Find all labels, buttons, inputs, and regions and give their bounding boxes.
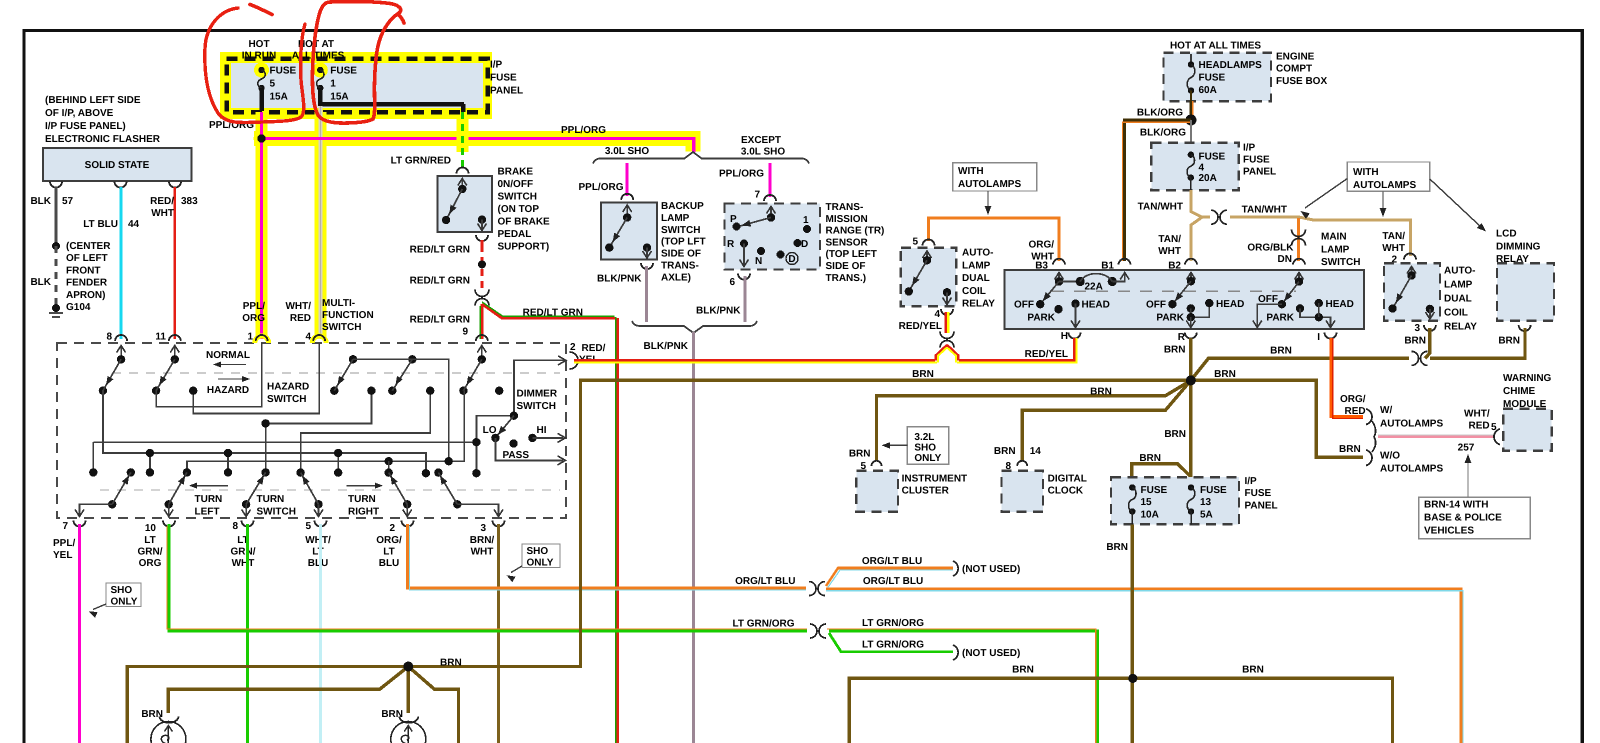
svg-text:WHT/: WHT/ [285, 301, 311, 312]
wire BLK/ORG junction to B1 [1125, 120, 1192, 261]
wire ORG autolamps to relay 5 and B3 [929, 218, 1060, 261]
svg-text:LAMP: LAMP [1321, 244, 1350, 255]
svg-text:RELAY: RELAY [962, 299, 995, 310]
warning chime module connector [1494, 429, 1500, 445]
wire RED/LT GRN green trace to pin 9 [479, 306, 481, 339]
electronic flasher SOLID STATE [43, 148, 192, 181]
svg-text:4: 4 [305, 332, 311, 343]
svg-text:MAIN: MAIN [1321, 232, 1347, 243]
svg-text:WHT: WHT [1382, 243, 1405, 254]
instrument cluster [856, 471, 898, 512]
MF pin 7 (bottom) [74, 521, 86, 527]
svg-text:BLU: BLU [308, 558, 329, 569]
svg-text:IN RUN: IN RUN [242, 51, 276, 62]
svg-text:WHT: WHT [232, 558, 255, 569]
svg-text:3.0L SHO: 3.0L SHO [741, 147, 785, 158]
svg-text:I/P: I/P [1245, 476, 1258, 487]
wire BRN fuse15 down to bottom loop [1131, 524, 1134, 743]
svg-text:BRN-14 WITH: BRN-14 WITH [1424, 500, 1488, 511]
svg-text:BRN: BRN [440, 658, 462, 669]
svg-text:OF LEFT: OF LEFT [66, 253, 108, 264]
wire ORG/LT BLU continues right and down [826, 589, 1461, 743]
svg-text:LAMP: LAMP [962, 260, 991, 271]
wire PPL/ORG to backup lamp switch [626, 163, 629, 196]
svg-text:WITH: WITH [1353, 167, 1379, 178]
svg-text:BLK/ORG: BLK/ORG [1137, 108, 1183, 119]
MF pin 3 (bottom) [493, 521, 505, 527]
svg-text:8: 8 [232, 521, 238, 532]
callout WITH AUTOLAMPS (right) [1347, 162, 1430, 191]
svg-text:LT: LT [144, 535, 155, 546]
svg-text:OFF: OFF [1146, 300, 1166, 311]
svg-text:AUTOLAMPS: AUTOLAMPS [1380, 464, 1443, 475]
MF isolated contact dot b [509, 439, 517, 447]
svg-text:RED/YEL: RED/YEL [899, 321, 942, 332]
svg-text:ONLY: ONLY [111, 597, 138, 608]
wire WHT/RED fuse1 down to MF pin 4 [318, 106, 322, 339]
svg-text:FUSE: FUSE [270, 66, 297, 77]
svg-text:5A: 5A [1200, 509, 1213, 520]
wire RED/YEL MF pin2 to H pin of main lamp switch [574, 338, 1076, 363]
svg-text:DUAL: DUAL [1444, 294, 1472, 305]
svg-text:HI: HI [537, 425, 547, 436]
svg-text:SIDE OF: SIDE OF [826, 261, 866, 272]
svg-text:ELECTRONIC FLASHER: ELECTRONIC FLASHER [45, 134, 161, 145]
svg-text:RANGE (TR): RANGE (TR) [826, 226, 885, 237]
svg-text:ORG/: ORG/ [1028, 240, 1054, 251]
svg-text:15A: 15A [270, 92, 288, 103]
MF pin 5 exit [318, 504, 320, 515]
transmission range (TR) sensor [725, 204, 821, 270]
svg-text:PPL/: PPL/ [53, 538, 75, 549]
digital clock [1002, 471, 1044, 512]
svg-text:60A: 60A [1199, 85, 1217, 96]
callout 3.2L SHO ONLY [907, 427, 948, 465]
svg-text:(CENTER: (CENTER [66, 241, 111, 252]
svg-text:COIL: COIL [962, 286, 986, 297]
svg-text:SWITCH: SWITCH [322, 322, 361, 333]
svg-text:TAN/WHT: TAN/WHT [1138, 202, 1183, 213]
brake on/off switch [457, 168, 469, 174]
svg-text:SIDE OF: SIDE OF [661, 249, 701, 260]
svg-text:B2: B2 [1168, 261, 1181, 272]
MF pin4 feed to blade3 riser [193, 343, 319, 414]
wire BRN junction right to W/O autolamps [1191, 380, 1363, 457]
svg-text:TURN: TURN [195, 494, 223, 505]
MLS section3 DN arm [1298, 272, 1300, 282]
svg-text:1: 1 [803, 215, 809, 226]
svg-text:FUNCTION: FUNCTION [322, 310, 374, 321]
svg-text:OFF: OFF [1014, 300, 1034, 311]
svg-text:D: D [801, 239, 808, 250]
svg-text:7: 7 [62, 521, 68, 532]
MF hazard blade 2 [174, 345, 176, 359]
svg-text:COMPT: COMPT [1276, 64, 1312, 75]
svg-text:FUSE: FUSE [1199, 73, 1226, 84]
wire BRN to right turn lamp [407, 667, 410, 714]
svg-text:SWITCH: SWITCH [498, 192, 537, 203]
MF turn blade to pin 10 [165, 500, 173, 508]
svg-text:1: 1 [247, 332, 253, 343]
svg-text:TRANS-: TRANS- [826, 202, 864, 213]
svg-text:R: R [727, 239, 735, 250]
svg-text:LCD: LCD [1496, 229, 1517, 240]
svg-text:FUSE: FUSE [1200, 485, 1227, 496]
MF pin 2 RED/YEL connector (right edge) [558, 356, 566, 365]
wire PPL/ORG highlight (yellow) [256, 112, 268, 339]
svg-text:SUPPORT): SUPPORT) [498, 242, 550, 253]
I/P fuse panel (fuse 4) [1151, 143, 1239, 191]
wire BRN branch to fuse 15 [1132, 464, 1191, 477]
svg-text:CHIME: CHIME [1503, 386, 1536, 397]
fuse F13 5A [1188, 484, 1194, 490]
svg-text:WHT/: WHT/ [305, 535, 331, 546]
svg-text:ORG/LT BLU: ORG/LT BLU [735, 576, 795, 587]
svg-text:PPL/ORG: PPL/ORG [578, 182, 623, 193]
wire PPL/ORG fuse5 down to MF pin 1 [260, 112, 263, 339]
svg-text:(TOP LEFT: (TOP LEFT [826, 249, 877, 260]
MF pin 5 (bottom) [315, 521, 327, 527]
svg-text:B1: B1 [1101, 261, 1114, 272]
svg-text:RED/YEL: RED/YEL [1025, 349, 1068, 360]
svg-text:SOLID STATE: SOLID STATE [85, 160, 150, 171]
svg-text:SWITCH: SWITCH [517, 401, 556, 412]
svg-text:RED/LT GRN: RED/LT GRN [410, 276, 470, 287]
wire WHT/RED 257 to warning chime [1378, 436, 1494, 438]
svg-text:TURN: TURN [348, 494, 376, 505]
svg-text:HOT: HOT [248, 39, 269, 50]
MF pin 2 exit [406, 504, 408, 515]
MF H2 wire [103, 391, 426, 474]
svg-text:10: 10 [145, 523, 157, 534]
svg-text:DIMMER: DIMMER [517, 389, 558, 400]
svg-text:LAMP: LAMP [1444, 280, 1473, 291]
svg-text:OF I/P, ABOVE: OF I/P, ABOVE [45, 108, 114, 119]
svg-text:44: 44 [128, 219, 140, 230]
svg-text:LT: LT [383, 547, 394, 558]
connector W/O AUTOLAMPS [1366, 450, 1372, 466]
svg-text:WHT: WHT [471, 547, 494, 558]
wire BLK/PNK bracket down to bottom [692, 332, 695, 743]
svg-text:BRN: BRN [1270, 346, 1292, 357]
svg-text:PASS: PASS [503, 450, 530, 461]
svg-text:RED/LT GRN: RED/LT GRN [523, 308, 583, 319]
svg-text:BRN: BRN [1214, 369, 1236, 380]
MF turn blade to pin 5 [314, 500, 322, 508]
callout WITH AUTOLAMPS (left) [953, 163, 1037, 191]
svg-text:RED/LT GRN: RED/LT GRN [410, 245, 470, 256]
svg-text:4: 4 [934, 309, 940, 320]
svg-text:I/P: I/P [490, 60, 503, 71]
svg-text:BRN: BRN [994, 446, 1016, 457]
svg-text:I: I [1317, 332, 1320, 343]
svg-text:FUSE BOX: FUSE BOX [1276, 76, 1327, 87]
wire LT GRN/ORG branch to NOT USED [829, 633, 953, 652]
wire TAN/WHT bus to DN junction and relay 2 [1230, 217, 1410, 256]
svg-text:9: 9 [462, 327, 468, 338]
callout SHO ONLY (left) [106, 583, 141, 607]
wire BRN/WHT MF pin3 down [497, 524, 500, 743]
wire ORG/LT BLU branch to NOT USED [826, 568, 953, 586]
svg-text:LT: LT [312, 547, 323, 558]
svg-text:TAN/: TAN/ [1158, 234, 1181, 245]
svg-text:5: 5 [305, 521, 311, 532]
wire BLK/ORG junction to fuse 4 [1190, 120, 1192, 156]
wire BRN R pin to junction [1189, 338, 1192, 380]
svg-text:AXLE): AXLE) [661, 272, 691, 283]
MF hazard blade 3 [349, 355, 357, 363]
svg-text:8: 8 [106, 332, 112, 343]
svg-text:RED/: RED/ [582, 343, 606, 354]
svg-text:5: 5 [270, 79, 276, 90]
svg-text:BRN: BRN [1090, 387, 1112, 398]
svg-text:FUSE: FUSE [1141, 485, 1168, 496]
bus bar from fuse 1 to LT GRN/RED drop [320, 102, 464, 107]
svg-text:RELAY: RELAY [1444, 322, 1477, 333]
svg-text:GRN/: GRN/ [231, 547, 256, 558]
MF turn blade to pin 2 [403, 500, 411, 508]
svg-text:SENSOR: SENSOR [826, 237, 869, 248]
MLS section1 B3 arm [1058, 272, 1060, 282]
svg-text:383: 383 [181, 196, 198, 207]
label TURN RIGHT with arrow [347, 485, 381, 487]
svg-text:BRN: BRN [1164, 345, 1186, 356]
svg-text:FENDER: FENDER [66, 278, 108, 289]
svg-text:W/O: W/O [1380, 451, 1400, 462]
auto-lamp dual coil relay (left) [901, 248, 956, 306]
svg-text:SHO: SHO [527, 546, 549, 557]
svg-text:5: 5 [912, 237, 918, 248]
svg-text:LT GRN/ORG: LT GRN/ORG [862, 640, 924, 651]
svg-text:LT GRN/ORG: LT GRN/ORG [862, 618, 924, 629]
svg-text:15A: 15A [330, 92, 348, 103]
main lamp switch box [1005, 270, 1365, 329]
svg-text:BRN: BRN [1012, 665, 1034, 676]
svg-text:ORG/: ORG/ [1340, 394, 1366, 405]
warning chime module box [1503, 409, 1552, 451]
svg-text:RED/: RED/ [150, 196, 174, 207]
svg-text:I/P: I/P [1243, 143, 1256, 154]
junction BRN bottom (dot overlay) [1128, 674, 1137, 683]
svg-text:DIGITAL: DIGITAL [1048, 474, 1087, 485]
svg-text:7: 7 [754, 190, 760, 201]
wire BRN to digital clock [1022, 380, 1191, 461]
svg-text:PARK: PARK [1266, 313, 1294, 324]
svg-text:BRN: BRN [1339, 444, 1361, 455]
wire BLK 57 flasher to ground [55, 187, 58, 246]
svg-text:WITH: WITH [958, 166, 984, 177]
wire RED/LT GRN brake switch down (dashed) [481, 240, 484, 245]
svg-text:FUSE: FUSE [1199, 152, 1226, 163]
svg-text:HOT AT ALL TIMES: HOT AT ALL TIMES [1170, 41, 1261, 52]
svg-text:RED/LT GRN: RED/LT GRN [410, 315, 470, 326]
svg-text:HAZARD: HAZARD [267, 382, 309, 393]
MF pin 8 (bottom) [242, 521, 254, 527]
svg-text:RED: RED [1468, 421, 1489, 432]
flasher pin arcs [50, 182, 62, 188]
svg-text:HEAD: HEAD [1082, 300, 1110, 311]
MF pin 10 (bottom) [163, 521, 175, 527]
MF isolated contact dot a [495, 387, 503, 395]
svg-text:FUSE: FUSE [1245, 488, 1272, 499]
svg-text:ONLY: ONLY [527, 558, 554, 569]
wire RED/YEL relay4 down [947, 312, 949, 333]
svg-text:BRN: BRN [1106, 542, 1128, 553]
connector break on RED/LT GRN [475, 290, 489, 297]
svg-text:SWITCH: SWITCH [257, 507, 296, 518]
connector break on TAN/WHT [1211, 210, 1218, 224]
MF pin 7 exit [80, 504, 113, 515]
fuse HEADLAMPS 60A [1190, 54, 1192, 65]
annotation red scribble left tail [250, 5, 272, 15]
svg-text:ONLY: ONLY [914, 453, 941, 464]
MF turn blade to pin 8b [242, 500, 250, 508]
wire PPL/YEL MF pin7 down [78, 524, 81, 743]
annotation red scribble left loop [205, 8, 305, 123]
svg-text:10A: 10A [1141, 509, 1159, 520]
svg-text:ORG/LT BLU: ORG/LT BLU [863, 576, 923, 587]
wire BRN bottom horizontal [849, 678, 1392, 743]
svg-text:PANEL: PANEL [1243, 167, 1276, 178]
svg-text:DUAL: DUAL [962, 273, 990, 284]
svg-text:WHT/: WHT/ [1464, 409, 1490, 420]
fuse F15 10A [1129, 484, 1135, 490]
wire LT GRN/ORG continues right and down [829, 631, 1098, 743]
svg-text:MULTI-: MULTI- [322, 298, 355, 309]
svg-text:6: 6 [729, 277, 735, 288]
MF PASS output [495, 438, 563, 461]
wire BLK/ORG fuse box down [1190, 101, 1193, 120]
svg-text:13: 13 [1200, 497, 1212, 508]
MF H3 wire [187, 391, 464, 473]
wire LT GRN/WHT MF pin8 down [246, 524, 249, 743]
svg-text:14: 14 [1030, 446, 1042, 457]
svg-text:HEADLAMPS: HEADLAMPS [1199, 60, 1263, 71]
wire BRN break to LCD relay [1430, 328, 1525, 358]
svg-text:BLK/PNK: BLK/PNK [597, 274, 642, 285]
svg-text:SHO: SHO [914, 442, 936, 453]
MF turn blade to pin 3 [453, 500, 461, 508]
svg-text:FUSE: FUSE [1243, 155, 1270, 166]
label HAZARD with arrow [218, 378, 247, 380]
svg-text:D: D [788, 254, 795, 265]
svg-text:WHT: WHT [1158, 246, 1181, 257]
MF pin1 feed to blade2 [156, 343, 262, 407]
svg-text:3.2L: 3.2L [914, 432, 934, 443]
svg-text:WARNING: WARNING [1503, 373, 1552, 384]
wire LT GRN/RED fuse panel to brake switch (dashed, yellow hl) [457, 119, 469, 152]
MF dimmer pivot and riser [476, 416, 514, 474]
wire BRN relay3 jog [1425, 328, 1430, 358]
svg-text:VEHICLES: VEHICLES [1424, 526, 1474, 537]
svg-text:RED: RED [1344, 406, 1365, 417]
junction BRN lamp feed (dot overlay) [403, 662, 413, 672]
MF hazard blade 1 [120, 345, 122, 359]
svg-text:3: 3 [1414, 323, 1420, 334]
svg-text:PEDAL: PEDAL [498, 229, 532, 240]
MF pin 10 exit [168, 504, 170, 515]
svg-text:BRN: BRN [1139, 453, 1161, 464]
MF dimmer blade to LO [495, 416, 514, 438]
svg-text:MISSION: MISSION [826, 214, 868, 225]
svg-text:YEL: YEL [53, 550, 72, 561]
junction BRN bottom [1128, 674, 1137, 683]
svg-text:(ON TOP: (ON TOP [498, 204, 540, 215]
MF pin 1 (top) [255, 336, 269, 343]
connector W/ AUTOLAMPS [1366, 409, 1372, 425]
svg-text:DIMMING: DIMMING [1496, 241, 1541, 252]
svg-text:SWITCH: SWITCH [1321, 257, 1360, 268]
svg-text:57: 57 [62, 196, 74, 207]
DN pin [1293, 259, 1305, 265]
svg-text:TURN: TURN [257, 494, 285, 505]
svg-text:APRON): APRON) [66, 290, 105, 301]
svg-text:NORMAL: NORMAL [206, 350, 250, 361]
svg-text:PARK: PARK [1027, 313, 1055, 324]
wire LT BLU 44 flasher to MF pin 8 [119, 187, 122, 339]
junction BRN main (dot overlay) [1186, 375, 1196, 385]
svg-text:BASE & POLICE: BASE & POLICE [1424, 513, 1502, 524]
svg-text:AUTOLAMPS: AUTOLAMPS [1353, 180, 1416, 191]
svg-text:BRN/: BRN/ [470, 535, 495, 546]
svg-text:LAMP: LAMP [661, 213, 690, 224]
svg-text:WHT: WHT [151, 208, 174, 219]
svg-text:TRANS-: TRANS- [661, 261, 699, 272]
svg-text:G104: G104 [66, 302, 91, 313]
svg-text:BLK/PNK: BLK/PNK [644, 341, 689, 352]
svg-text:FUSE: FUSE [490, 73, 517, 84]
fuse F5 15A [254, 63, 269, 78]
wire BRN junction down to fuse 13 [1189, 380, 1192, 477]
wire PPL/ORG horizontal bus to 3.0L SHO split [262, 139, 694, 153]
svg-text:BRN: BRN [1242, 665, 1264, 676]
svg-text:HEAD: HEAD [1216, 299, 1244, 310]
svg-text:CLUSTER: CLUSTER [902, 486, 950, 497]
callout SHO ONLY (right) [522, 544, 560, 568]
svg-text:1: 1 [330, 79, 336, 90]
MF hazard blade 5 [481, 345, 483, 359]
I/P fuse panel (fuse 15 / fuse 13) [1111, 477, 1239, 524]
MF riser x430 net [301, 391, 431, 473]
MF pin 2 (bottom) [402, 521, 414, 527]
svg-text:FRONT: FRONT [66, 265, 100, 276]
MF pin 4 (top) [312, 336, 326, 343]
svg-text:BLU: BLU [379, 558, 400, 569]
svg-text:SWITCH: SWITCH [661, 225, 700, 236]
svg-text:(NOT USED): (NOT USED) [962, 648, 1020, 659]
svg-text:3.0L SHO: 3.0L SHO [605, 146, 649, 157]
svg-text:BRN: BRN [1164, 429, 1186, 440]
TR circled D [777, 251, 785, 259]
wire BRN to left turn lamp [168, 667, 408, 714]
svg-text:15: 15 [1141, 497, 1153, 508]
svg-text:RIGHT: RIGHT [348, 507, 379, 518]
svg-text:TAN/: TAN/ [1382, 231, 1405, 242]
svg-text:TRANS.): TRANS.) [826, 273, 867, 284]
svg-text:SWITCH: SWITCH [267, 394, 306, 405]
svg-text:AUTOLAMPS: AUTOLAMPS [1380, 419, 1443, 430]
svg-text:BACKUP: BACKUP [661, 201, 704, 212]
svg-text:BLK/ORG: BLK/ORG [1140, 128, 1186, 139]
junction PPL/ORG at fuse 5 output [254, 131, 270, 147]
MF blade3/4 top link to H3 [353, 359, 449, 461]
wire LT GRN/ORG MF pin10 to right [169, 524, 807, 631]
wire BRN junction to relays/LCD (y358) [1191, 358, 1409, 380]
auto-lamp dual coil relay (right) [1384, 263, 1440, 321]
svg-text:ORG/BLK: ORG/BLK [1247, 243, 1294, 254]
svg-text:LEFT: LEFT [195, 507, 220, 518]
MF pin 3 exit [457, 504, 498, 515]
